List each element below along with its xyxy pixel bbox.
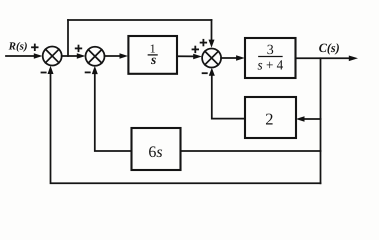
wire block 6s output to S2 bottom bbox=[95, 71, 132, 151]
wire input R(s) to summer S1 bbox=[6, 55, 37, 57]
minus sign at S2 bottom input bbox=[86, 71, 90, 73]
wire outer feedback bottom to S1 bottom bbox=[51, 71, 321, 184]
minus sign at S3 bottom input bbox=[203, 72, 207, 74]
wire branch down from output node bbox=[320, 58, 322, 183]
minus sign at S1 bottom input bbox=[42, 72, 46, 74]
summing junction S2 bbox=[86, 47, 105, 66]
svg-text:6s: 6s bbox=[148, 144, 162, 161]
svg-text:3: 3 bbox=[267, 43, 274, 58]
wire block 2 output to S3 bottom bbox=[212, 73, 245, 119]
wire tap to block 2 input bbox=[301, 118, 321, 120]
plus sign at S2 left input bbox=[76, 46, 82, 52]
wire down into S3 top bbox=[211, 20, 213, 42]
svg-text:C(s): C(s) bbox=[319, 41, 340, 55]
svg-text:s + 4: s + 4 bbox=[258, 58, 284, 73]
wire top feedforward bbox=[68, 19, 212, 21]
plus sign at S1 left input bbox=[32, 45, 38, 51]
block H1 gain 2 bbox=[245, 97, 296, 138]
wire block 1/s to S3 bbox=[177, 55, 195, 57]
svg-text:s: s bbox=[150, 52, 156, 67]
wire S2 to block 1/s bbox=[105, 55, 124, 57]
node branch between S1 and S2 going up bbox=[67, 20, 69, 56]
plus sign at S3 top input bbox=[201, 40, 207, 46]
block G2 3/(s+4) bbox=[245, 38, 296, 78]
wire S3 to block 3/(s+4) bbox=[221, 57, 239, 59]
wire S1 to S2 bbox=[62, 55, 80, 57]
summing junction S1 bbox=[43, 47, 62, 66]
plus sign at S3 left input bbox=[193, 47, 199, 53]
wire tap to block 6s input bbox=[181, 150, 321, 152]
svg-text:2: 2 bbox=[265, 110, 273, 129]
summing junction S3 bbox=[202, 49, 221, 68]
block G1 integrator 1/s bbox=[128, 36, 177, 74]
block H2 gain 6s bbox=[132, 128, 181, 170]
svg-text:R(s): R(s) bbox=[8, 40, 28, 52]
wire output to C(s) arrow bbox=[296, 57, 350, 59]
